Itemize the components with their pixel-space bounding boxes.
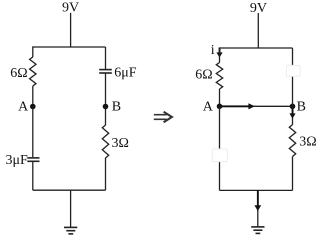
capacitor 6μF top plate: [99, 69, 112, 71]
wire node B to resistor 3Ω (left circuit): [105, 107, 107, 126]
wire capacitor 6μF to node B (left circuit): [105, 74, 107, 107]
capacitor 3μF bottom plate: [27, 160, 39, 162]
svg-text:3Ω: 3Ω: [112, 136, 129, 151]
wire top rail (left circuit): [33, 46, 106, 48]
current arrow on ground stub (right circuit): [254, 190, 261, 211]
current arrow on wire A to B: [220, 103, 255, 109]
wire resistor 3Ω to bottom rail (right circuit): [292, 157, 294, 191]
svg-text:6Ω: 6Ω: [195, 68, 212, 83]
svg-text:3Ω: 3Ω: [299, 135, 316, 150]
svg-text:i: i: [211, 43, 215, 58]
wire resistor 3Ω to bottom rail (left circuit): [105, 158, 107, 190]
resistor 6Ω (left circuit): [30, 57, 36, 86]
svg-text:3μF: 3μF: [6, 153, 29, 168]
wire node A down left branch (right circuit): [219, 106, 221, 190]
ground (left circuit): [64, 227, 77, 234]
open circuit gap where capacitor 6μF removed (right circuit): [286, 65, 300, 76]
current arrow i on left branch (right circuit): [216, 48, 222, 58]
svg-text:6μF: 6μF: [114, 65, 137, 80]
node B (left circuit): [103, 104, 109, 110]
wire 9V supply stub (right circuit): [257, 13, 259, 48]
wire top to capacitor 6μF (left circuit): [105, 47, 107, 69]
wire top to resistor 6Ω (left circuit): [32, 46, 34, 57]
wire top rail (right circuit): [220, 47, 293, 49]
wire ground stub (right circuit): [257, 190, 259, 226]
node A (left circuit): [30, 104, 36, 110]
resistor 3Ω (left circuit): [102, 125, 108, 158]
wire node A to capacitor 3μF (left circuit): [32, 107, 34, 158]
svg-text:B: B: [297, 100, 306, 115]
wire capacitor 3μF to bottom rail (left circuit): [32, 162, 34, 190]
wire node A to node B (right circuit): [220, 105, 293, 107]
resistor 3Ω (right circuit): [289, 125, 295, 157]
open circuit gap where capacitor 3μF removed (right circuit): [212, 149, 227, 162]
node B (right circuit): [290, 104, 296, 110]
wire resistor 6Ω to node A (right circuit): [219, 89, 221, 106]
capacitor 6μF bottom plate: [99, 72, 112, 74]
implication arrow ⇒: [154, 112, 172, 123]
wire ground stub (left circuit): [70, 190, 72, 227]
wire node B to resistor 3Ω (right circuit): [292, 106, 294, 125]
wire 9V supply stub (left circuit): [70, 13, 72, 47]
current arrow below node B (right circuit): [289, 108, 295, 119]
svg-text:A: A: [18, 100, 29, 115]
wire bottom rail (left circuit): [33, 189, 106, 191]
capacitor 3μF top plate: [27, 157, 39, 159]
wire bottom rail (right circuit): [220, 189, 293, 191]
wire resistor 6Ω to node A (left circuit): [32, 86, 34, 107]
wire top to resistor 6Ω (right circuit): [219, 47, 221, 62]
svg-text:6Ω: 6Ω: [10, 66, 27, 81]
node A (right circuit): [217, 104, 223, 110]
wire top rail to open gap (right circuit right branch): [292, 48, 294, 106]
svg-text:B: B: [112, 100, 121, 115]
svg-text:A: A: [203, 100, 214, 115]
ground (right circuit): [251, 227, 264, 234]
resistor 6Ω (right circuit): [216, 63, 222, 90]
